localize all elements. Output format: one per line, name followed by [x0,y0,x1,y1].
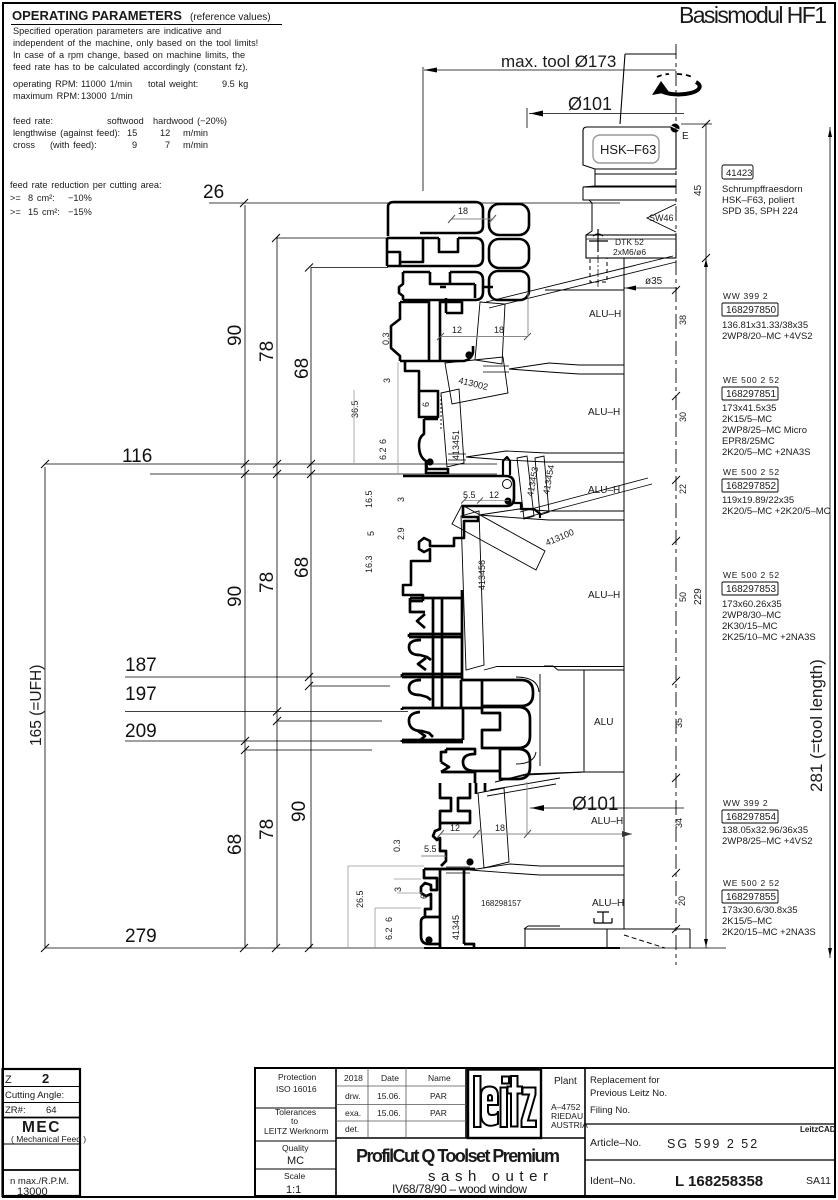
svg-text:413100: 413100 [544,527,576,548]
svg-text:0.3: 0.3 [381,332,391,345]
dim 281 tool length [807,127,832,958]
right band dims chain [674,315,688,906]
svg-text:m/min: m/min [183,140,208,150]
svg-text:ALU–H: ALU–H [589,309,621,320]
svg-text:Article–No.: Article–No. [590,1137,641,1149]
svg-text:34: 34 [674,818,684,828]
svg-text:12: 12 [160,128,170,138]
svg-text:In case of a rpm change, based: In case of a rpm change, based on machin… [13,50,245,60]
svg-text:L 168258358: L 168258358 [675,1173,763,1190]
svg-text:173x60.26x35: 173x60.26x35 [722,599,782,610]
svg-text:5.5: 5.5 [463,490,476,500]
band ticks on centerline [672,286,680,933]
small dims lower [348,527,632,948]
part ref 168297851 [722,375,810,458]
dim 45 [681,120,712,262]
svg-text:cross: cross [13,140,35,150]
svg-text:Previous Leitz No.: Previous Leitz No. [590,1088,667,1099]
lower block B2 [482,707,530,748]
svg-text:( Mechanical Feed ): ( Mechanical Feed ) [11,1134,86,1144]
svg-text:413454: 413454 [541,464,556,495]
svg-text:3: 3 [393,887,403,892]
svg-text:softwood: softwood [107,116,144,126]
svg-text:2K30/15–MC: 2K30/15–MC [722,621,778,632]
svg-text:26: 26 [203,182,224,203]
svg-text:413002: 413002 [458,375,490,392]
dim 229 [693,258,708,948]
svg-text:35: 35 [674,718,684,728]
svg-text:m/min: m/min [183,128,208,138]
leitz logo [468,1070,541,1139]
svg-text:ALU–H: ALU–H [588,590,620,601]
svg-text:ALU–H: ALU–H [591,816,623,827]
dimension 197 [125,684,408,716]
svg-text:SG 599 2 52: SG 599 2 52 [667,1137,759,1151]
svg-text:ø35: ø35 [645,276,663,287]
svg-text:168297853: 168297853 [726,584,776,595]
thin ALU hub outline [462,590,624,782]
svg-text:SW46: SW46 [649,213,674,223]
svg-text:WE 500 2 52: WE 500 2 52 [723,467,780,477]
svg-text:2WP8/30–MC: 2WP8/30–MC [722,610,781,621]
svg-text:Scale: Scale [284,1171,306,1181]
svg-text:Ø101: Ø101 [572,794,618,815]
svg-text:64: 64 [46,1105,57,1116]
svg-text:2WP8/25–MC +4VS2: 2WP8/25–MC +4VS2 [722,836,813,847]
vertical dim line x309 [289,267,313,948]
svg-text:>=: >= [10,207,21,217]
knife 413454 [535,456,549,515]
svg-text:SPD 35, SPH 224: SPD 35, SPH 224 [722,206,798,217]
svg-text:18: 18 [494,325,504,335]
svg-text:13000 1/min: 13000 1/min [81,91,133,101]
svg-text:WE 500 2 52: WE 500 2 52 [723,878,780,888]
svg-text:2K15/5–MC: 2K15/5–MC [722,414,772,425]
title block [255,1068,835,1196]
svg-text:68: 68 [292,557,313,578]
part ref 168297853 [722,570,816,643]
svg-text:Ø101: Ø101 [568,94,612,114]
svg-text:(reference values): (reference values) [190,12,271,23]
svg-text:2K20/5–MC +2NA3S: 2K20/5–MC +2NA3S [722,447,810,458]
svg-text:12: 12 [452,325,462,335]
svg-text:15: 15 [127,128,137,138]
svg-text:15.06.: 15.06. [377,1108,401,1118]
svg-text:45: 45 [693,184,704,196]
svg-text:36.5: 36.5 [350,400,360,418]
svg-text:0.3: 0.3 [392,839,402,852]
svg-text:(with feed):: (with feed): [50,140,97,150]
svg-text:209: 209 [125,721,157,742]
lower ledge & foot [421,869,475,947]
svg-text:DTK 52: DTK 52 [615,237,644,247]
svg-text:operating RPM:: operating RPM: [13,79,78,89]
vertical dim line x245 [225,205,246,948]
lower cluster upper stepped section [402,590,620,948]
knife 413451 [441,389,464,467]
svg-text:LeitzCAD: LeitzCAD [800,1125,836,1134]
svg-text:2.9: 2.9 [396,527,406,540]
svg-text:to: to [291,1116,298,1126]
svg-text:6.2: 6.2 [384,927,394,940]
svg-text:lengthwise (against feed):: lengthwise (against feed): [13,128,120,138]
svg-text:feed rate reduction per cuttin: feed rate reduction per cutting area: [10,180,162,190]
svg-text:197: 197 [125,684,157,705]
svg-text:E: E [682,131,689,142]
spindle neck rings [583,169,676,200]
svg-text:7: 7 [165,140,170,150]
svg-text:maximum RPM:: maximum RPM: [13,91,80,101]
dimension 116 [41,446,497,478]
svg-text:413456: 413456 [477,560,487,590]
svg-text:2WP8/25–MC Micro: 2WP8/25–MC Micro [722,425,807,436]
part ref 41423 [722,165,803,217]
svg-text:WW 399 2: WW 399 2 [723,291,768,301]
lower rail C [441,749,500,783]
svg-text:168297854: 168297854 [726,812,776,823]
knife 413456 [461,511,484,670]
svg-text:Specified operation parameters: Specified operation parameters are indic… [13,26,221,36]
svg-text:2K25/10–MC +2NA3S: 2K25/10–MC +2NA3S [722,632,816,643]
svg-text:feed rate:: feed rate: [13,116,53,126]
dimension 279 baseline [41,926,726,952]
spindle shaft top half-section [620,54,676,124]
svg-text:2K15/5–MC: 2K15/5–MC [722,916,772,927]
dimension leader 78 top [276,237,388,239]
svg-text:ALU: ALU [594,717,613,728]
knife 413002 slab [445,256,676,404]
svg-text:2018: 2018 [344,1073,363,1083]
material labels [588,309,624,909]
svg-text:78: 78 [257,572,278,593]
svg-text:229: 229 [693,588,704,605]
svg-text:173x30.6/30.8x35: 173x30.6/30.8x35 [722,905,798,916]
svg-text:16.3: 16.3 [364,555,374,573]
svg-text:168297851: 168297851 [726,389,776,400]
svg-text:68: 68 [292,358,313,379]
svg-text:2xM6/ø6: 2xM6/ø6 [613,247,646,257]
svg-text:68: 68 [225,834,246,855]
svg-text:20: 20 [677,896,687,906]
svg-text:LEITZ Werknorm: LEITZ Werknorm [264,1126,329,1136]
upper profile cluster rail 1 [387,202,529,473]
svg-text:18: 18 [495,823,505,833]
svg-text:281 (=tool length): 281 (=tool length) [807,659,826,792]
svg-text:2WP8/20–MC +4VS2: 2WP8/20–MC +4VS2 [722,331,813,342]
svg-text:WW 399 2: WW 399 2 [723,798,768,808]
svg-text:feed rate has to be calculated: feed rate has to be calculated according… [13,62,248,72]
svg-text:119x19.89/22x35: 119x19.89/22x35 [722,495,794,506]
mid piece right step [503,457,540,518]
svg-text:6: 6 [421,402,431,407]
svg-text:PAR: PAR [430,1091,447,1101]
upper cluster baulk [391,287,462,361]
svg-text:PAR: PAR [430,1108,447,1118]
svg-text:9: 9 [132,140,137,150]
svg-text:279: 279 [125,926,157,947]
svg-text:Ident–No.: Ident–No. [590,1175,636,1187]
dia 101 bottom dimension [530,794,684,815]
ground symbol [594,912,612,923]
svg-text:HSK–F63, poliert: HSK–F63, poliert [722,195,795,206]
dimension 209 [125,721,404,745]
plant cell [551,1076,588,1130]
knife bullets [446,363,624,875]
svg-text:168297850: 168297850 [726,305,776,316]
vertical dim 165 UFH [28,467,45,948]
svg-text:26.5: 26.5 [355,890,365,908]
svg-text:168297855: 168297855 [726,892,776,903]
svg-text:78: 78 [257,819,278,840]
svg-text:max. tool Ø173: max. tool Ø173 [501,52,616,71]
svg-text:173x41.5x35: 173x41.5x35 [722,403,776,414]
svg-text:168297852: 168297852 [726,481,776,492]
svg-text:Replacement for: Replacement for [590,1075,660,1086]
svg-text:168298157: 168298157 [481,899,522,908]
dia 101 top dimension [527,94,684,128]
part ref 168297854 [722,798,813,847]
lower leaders 90/78/68 [311,685,390,687]
svg-text:9.5 kg: 9.5 kg [222,79,248,89]
svg-text:Name: Name [428,1073,451,1083]
svg-text:22: 22 [678,484,688,494]
svg-text:exa.: exa. [345,1108,361,1118]
svg-text:IV68/78/90 – wood window: IV68/78/90 – wood window [392,1182,527,1196]
svg-text:ProfilCut Q Toolset Premium: ProfilCut Q Toolset Premium [356,1146,560,1166]
right title fields [590,1075,836,1190]
spindle flange [586,229,676,287]
svg-text:12: 12 [489,490,499,500]
svg-text:2: 2 [42,1071,49,1086]
spindle cone SW46 [586,200,676,235]
svg-text:13000: 13000 [17,1186,48,1198]
svg-text:30: 30 [678,412,688,422]
svg-text:8 cm²:: 8 cm²: [28,193,55,203]
OPERATING PARAMETERS heading [11,8,282,25]
svg-text:WE 500 2 52: WE 500 2 52 [723,570,780,580]
svg-text:Date: Date [381,1073,399,1083]
svg-text:15 cm²:: 15 cm²: [28,207,60,217]
svg-text:1:1: 1:1 [286,1184,301,1196]
mid profile piece [403,476,514,601]
vertical dim line x277 [257,237,278,948]
bottom-left info box [3,1069,87,1198]
svg-text:ISO 16016: ISO 16016 [276,1084,317,1094]
part ref 168297852 [722,467,831,517]
svg-text:Plant: Plant [554,1076,577,1087]
dimension leader 68 top [311,267,388,269]
max tool dia dimension [423,52,676,191]
svg-text:16.5: 16.5 [364,490,374,508]
svg-text:hardwood (−20%): hardwood (−20%) [153,116,227,126]
HSK chuck body [583,124,689,170]
svg-text:90: 90 [225,586,246,607]
svg-text:Z: Z [5,1074,12,1086]
upper profile cluster rail 2 [387,238,483,266]
svg-text:Quality: Quality [282,1143,309,1153]
svg-text:>=: >= [10,193,21,203]
svg-text:drw.: drw. [345,1091,361,1101]
svg-text:38: 38 [678,315,688,325]
svg-text:Protection: Protection [278,1072,317,1082]
bottom end plate [524,926,690,948]
svg-text:6: 6 [384,917,394,922]
rotation arrow [652,74,700,95]
svg-text:ALU–H: ALU–H [592,898,624,909]
small dims upper [350,206,531,573]
arbor shaft [623,258,625,929]
svg-text:MC: MC [287,1155,304,1167]
svg-text:6: 6 [419,894,429,899]
svg-text:78: 78 [257,341,278,362]
cutter ring boundaries [495,290,624,868]
knife 413100 [452,478,652,570]
svg-text:138.05x32.96/36x35: 138.05x32.96/36x35 [722,825,808,836]
svg-text:Cutting Angle:: Cutting Angle: [5,1090,64,1101]
svg-text:15.06.: 15.06. [377,1091,401,1101]
svg-text:12: 12 [450,823,460,833]
svg-text:413451: 413451 [451,430,461,460]
svg-text:3: 3 [382,378,392,383]
part ref 168297850 [722,291,813,342]
lower stepped column [433,783,470,866]
dim 5.5 12 mid [461,490,509,504]
svg-text:−10%: −10% [68,193,92,203]
svg-text:41423: 41423 [726,168,752,179]
svg-text:det.: det. [345,1124,359,1134]
svg-text:136.81x31.33/38x35: 136.81x31.33/38x35 [722,320,808,331]
svg-text:−15%: −15% [68,207,92,217]
svg-text:165 (=UFH): 165 (=UFH) [28,665,45,746]
svg-text:5.5: 5.5 [424,844,437,854]
lower rail B1 [461,680,533,707]
dimension 187 [125,655,412,681]
svg-text:2K20/5–MC +2K20/5–MC: 2K20/5–MC +2K20/5–MC [722,506,831,517]
svg-text:WE 500 2 52: WE 500 2 52 [723,375,780,385]
svg-text:Schrumpffraesdorn: Schrumpffraesdorn [722,184,803,195]
svg-text:AUSTRIA: AUSTRIA [551,1120,588,1130]
svg-text:total weight:: total weight: [148,79,198,89]
svg-text:41345: 41345 [451,915,461,940]
svg-text:ALU–H: ALU–H [588,407,620,418]
knife 168298157 [478,778,560,868]
centerline [675,44,677,965]
parameter text block [10,26,258,217]
svg-text:Filing No.: Filing No. [590,1105,630,1116]
lower rail B left hooks [402,708,482,742]
svg-text:187: 187 [125,655,157,676]
svg-text:independent of the machine, on: independent of the machine, only based o… [13,38,258,48]
svg-text:2K20/15–MC +2NA3S: 2K20/15–MC +2NA3S [722,927,816,938]
part ref 168297855 [722,878,816,938]
svg-text:18: 18 [458,206,468,216]
svg-text:6.2: 6.2 [378,447,388,460]
svg-text:ZR#:: ZR#: [5,1105,26,1116]
svg-text:90: 90 [225,325,246,346]
dia 35 dim [624,276,677,291]
svg-text:90: 90 [289,801,310,822]
svg-text:50: 50 [678,592,688,602]
svg-text:Basismodul HF1: Basismodul HF1 [679,2,827,28]
svg-text:SA11: SA11 [806,1175,831,1187]
knife 413453 [517,456,534,519]
svg-text:11000 1/min: 11000 1/min [81,79,132,89]
svg-text:5: 5 [366,531,376,536]
svg-text:EPR8/25MC: EPR8/25MC [722,436,775,447]
upper profile cluster rail 3 [399,272,493,300]
svg-text:6: 6 [378,439,388,444]
dimension 26 [203,182,620,207]
svg-text:3: 3 [396,497,406,502]
svg-text:HSK–F63: HSK–F63 [600,142,656,157]
svg-text:OPERATING PARAMETERS: OPERATING PARAMETERS [12,8,182,23]
